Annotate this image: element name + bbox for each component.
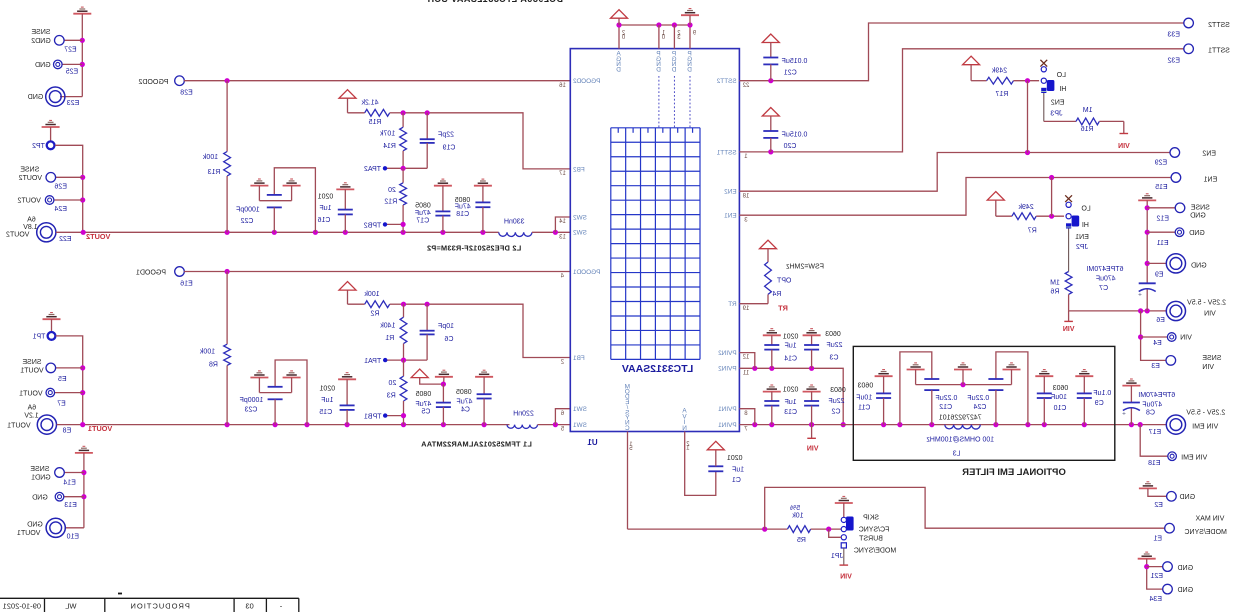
svg-text:E13: E13	[64, 502, 77, 509]
capacitor C13 1uF 0201	[763, 391, 781, 393]
svg-text:0805: 0805	[415, 203, 431, 210]
svg-text:C24: C24	[973, 404, 986, 411]
svg-text:GND: GND	[1191, 263, 1207, 270]
svg-text:1uF: 1uF	[319, 205, 331, 212]
wire VOUT1 rail	[57, 424, 510, 426]
svg-text:C13: C13	[784, 409, 797, 416]
svg-text:EN1: EN1	[1075, 234, 1089, 241]
connector E32 SSTT1	[1184, 44, 1194, 54]
svg-text:VIN MAX: VIN MAX	[1195, 516, 1224, 523]
svg-text:R16: R16	[1081, 126, 1094, 133]
svg-text:SNSE: SNSE	[1202, 355, 1221, 362]
wire	[60, 96, 82, 98]
connector E11 GND	[1145, 230, 1150, 235]
svg-text:SNSE: SNSE	[31, 29, 50, 36]
svg-text:0.22uF: 0.22uF	[936, 395, 958, 402]
svg-text:FSW=2MHz: FSW=2MHz	[786, 263, 824, 270]
svg-text:C19: C19	[442, 145, 455, 152]
svg-text:FC/SYNC: FC/SYNC	[859, 526, 890, 533]
wire SW1 pin6 jog	[555, 409, 570, 425]
svg-text:RT: RT	[728, 301, 736, 308]
connector E33 SSTT2	[1184, 18, 1194, 28]
svg-text:0201: 0201	[318, 193, 334, 200]
svg-text:E14: E14	[63, 479, 76, 486]
svg-text:VIN: VIN	[1204, 311, 1216, 318]
wire FB2	[403, 113, 570, 169]
svg-text:PVIN2: PVIN2	[718, 366, 737, 373]
svg-text:E22: E22	[59, 236, 72, 243]
capacitor C3 22uF 0603	[803, 334, 821, 336]
svg-text:VIN EMI: VIN EMI	[1192, 423, 1218, 430]
ground	[283, 377, 301, 379]
svg-text:0201: 0201	[783, 333, 799, 340]
svg-text:100k: 100k	[199, 349, 215, 356]
svg-text:PVIN1: PVIN1	[718, 406, 737, 413]
svg-text:E4: E4	[1153, 340, 1162, 347]
svg-text:VOUT1: VOUT1	[17, 530, 40, 537]
jumper JP3 EN2	[1040, 60, 1047, 67]
svg-text:BURST: BURST	[858, 536, 882, 543]
wire VOUT2 rail	[56, 231, 499, 233]
capacitor C10 10uF 0603	[1035, 375, 1053, 377]
svg-text:GND1: GND1	[31, 475, 51, 482]
resistor R13 100k	[226, 81, 228, 152]
svg-text:SNSE: SNSE	[20, 166, 39, 173]
svg-text:PGOOD2: PGOOD2	[573, 78, 601, 85]
resistor R7 249k	[996, 215, 1012, 217]
ground	[283, 185, 301, 187]
svg-text:TPB1: TPB1	[364, 414, 382, 421]
svg-text:JP1: JP1	[831, 553, 843, 560]
svg-text:GND: GND	[35, 62, 51, 69]
wire FB1	[404, 304, 571, 357]
test point TPB2	[383, 222, 387, 226]
wire AVIN	[685, 432, 716, 496]
svg-text:41.2k: 41.2k	[361, 100, 379, 107]
svg-text:C6: C6	[444, 336, 453, 343]
svg-text:SW1: SW1	[573, 422, 587, 429]
capacitor C14 1uF 0201	[763, 334, 781, 336]
connector E24 VOUT2	[54, 199, 83, 201]
svg-text:E33: E33	[1167, 32, 1180, 39]
wire SSTT2	[739, 23, 1184, 81]
wire EN2	[739, 153, 1170, 192]
connector E22 VOUT2 1.8V 6A	[37, 223, 56, 242]
svg-text:EN2: EN2	[1051, 100, 1065, 107]
power arrow VIN R15	[339, 90, 356, 99]
svg-text:R13: R13	[207, 169, 220, 176]
svg-text:LO: LO	[1056, 72, 1066, 79]
connector E34 GND	[1163, 584, 1173, 594]
svg-text:C16: C16	[317, 217, 330, 224]
svg-text:C18: C18	[456, 211, 469, 218]
svg-text:330nH: 330nH	[504, 218, 525, 225]
connector E23 GND	[46, 87, 65, 106]
wire TPA2 node	[385, 167, 427, 169]
svg-text:+: +	[1122, 410, 1126, 417]
svg-text:R12: R12	[384, 198, 397, 205]
svg-text:C1: C1	[732, 477, 741, 484]
connector E2 GND	[1139, 487, 1157, 489]
svg-text:EN1: EN1	[724, 213, 737, 220]
svg-text:TP1: TP1	[32, 334, 45, 341]
resistor R8 100k	[226, 272, 228, 345]
svg-text:E16: E16	[180, 280, 193, 287]
svg-text:EN2: EN2	[1202, 150, 1216, 157]
svg-text:C: C	[625, 425, 630, 432]
svg-text:0201: 0201	[783, 386, 799, 393]
capacitor C4 47uF 0805	[475, 376, 493, 378]
svg-text:5%: 5%	[790, 505, 800, 512]
svg-text:E27: E27	[64, 46, 77, 53]
svg-text:D: D	[671, 67, 676, 74]
connector E14 GND1 SNSE	[64, 472, 84, 474]
wire SW1	[538, 424, 571, 426]
svg-text:VOUT2: VOUT2	[19, 175, 42, 182]
svg-text:TPB2: TPB2	[364, 222, 382, 229]
wire VIN node	[1069, 310, 1167, 312]
svg-text:VOUT2: VOUT2	[6, 232, 29, 239]
svg-text:R17: R17	[995, 91, 1008, 98]
svg-text:22: 22	[742, 83, 749, 89]
svg-text:L2 DFE252012F-R33M=P2: L2 DFE252012F-R33M=P2	[427, 244, 521, 253]
svg-text:C8: C8	[1146, 409, 1155, 416]
svg-text:E5: E5	[58, 376, 67, 383]
svg-text:1uF: 1uF	[732, 467, 744, 474]
svg-text:WL: WL	[65, 601, 76, 610]
svg-text:L3: L3	[953, 450, 961, 457]
power tail VIN	[811, 425, 813, 439]
svg-text:140k: 140k	[380, 322, 396, 329]
svg-text:03: 03	[245, 601, 253, 610]
power arrow VIN R2	[339, 282, 356, 291]
svg-text:0.22uF: 0.22uF	[967, 395, 989, 402]
svg-text:N: N	[682, 425, 687, 432]
svg-text:GND: GND	[27, 522, 43, 529]
connector E5 VOUT1 SNSE	[55, 367, 82, 369]
svg-text:C5: C5	[421, 409, 430, 416]
svg-text:E6: E6	[1156, 317, 1165, 324]
svg-text:E34: E34	[1149, 596, 1162, 603]
svg-text:1uF: 1uF	[785, 399, 797, 406]
power tail VIN	[1068, 311, 1070, 322]
svg-text:220nH: 220nH	[513, 411, 534, 418]
svg-text:VIN: VIN	[840, 573, 852, 580]
svg-text:U1: U1	[587, 438, 598, 447]
inductor L1 220nH	[507, 425, 538, 429]
svg-text:SSTT2: SSTT2	[716, 78, 736, 85]
svg-text:0201: 0201	[319, 385, 335, 392]
svg-text:E9: E9	[1155, 272, 1164, 279]
node E13 junction	[81, 494, 86, 499]
svg-text:10uF: 10uF	[856, 395, 872, 402]
title block	[0, 598, 299, 612]
svg-text:SW1: SW1	[573, 406, 587, 413]
svg-text:18: 18	[742, 193, 749, 199]
svg-text:1.2V: 1.2V	[24, 413, 39, 420]
capacitor C8 470uF polarized	[1122, 385, 1140, 387]
svg-text:E28: E28	[180, 90, 193, 97]
svg-text:249k: 249k	[1018, 204, 1034, 211]
wire TPB2 node	[385, 223, 403, 225]
wire RT	[739, 303, 768, 305]
svg-text:FB2: FB2	[573, 166, 585, 173]
svg-text:SNSE: SNSE	[22, 359, 41, 366]
svg-text:6A: 6A	[27, 405, 36, 412]
svg-text:1M: 1M	[1083, 107, 1093, 114]
svg-text:74279226101: 74279226101	[939, 415, 982, 422]
svg-text:20: 20	[388, 187, 396, 194]
wire TPB1 node	[385, 415, 403, 417]
svg-text:C21: C21	[784, 70, 797, 77]
svg-text:D: D	[616, 67, 621, 74]
svg-text:SW2: SW2	[573, 214, 587, 221]
svg-text:1000pF: 1000pF	[236, 206, 260, 213]
svg-text:+: +	[1138, 291, 1142, 298]
svg-text:6TPE470MI: 6TPE470MI	[1086, 266, 1123, 273]
svg-text:13: 13	[559, 234, 566, 240]
ground	[250, 377, 268, 379]
svg-text:11: 11	[742, 370, 749, 376]
svg-text:E21: E21	[1150, 573, 1163, 580]
svg-text:VIN: VIN	[1180, 335, 1192, 342]
svg-text:C10: C10	[1053, 405, 1066, 412]
svg-text:TPA2: TPA2	[364, 166, 381, 173]
svg-text:C14: C14	[784, 356, 797, 363]
svg-text:GND2: GND2	[31, 38, 51, 45]
svg-text:0603: 0603	[1053, 385, 1069, 392]
test point TPA1	[383, 358, 387, 362]
test point TP2	[47, 141, 55, 149]
power tail VIN	[843, 548, 845, 565]
svg-text:OPT: OPT	[776, 277, 791, 284]
capacitor C7 470uF polarized	[1139, 282, 1156, 284]
svg-text:VIN EMI: VIN EMI	[1181, 455, 1207, 462]
svg-text:C22: C22	[240, 218, 253, 225]
capacitor C11 10uF 0603	[875, 375, 893, 377]
wire gnd bus mid	[916, 384, 1012, 386]
svg-text:VOUT2: VOUT2	[17, 198, 40, 205]
svg-text:E1: E1	[1153, 536, 1162, 543]
svg-text:C12: C12	[939, 404, 952, 411]
svg-text:VIN: VIN	[1063, 326, 1075, 333]
resistor R16 1M	[1076, 118, 1099, 125]
svg-text:GND: GND	[1189, 230, 1205, 237]
svg-text:1.8V: 1.8V	[23, 224, 38, 231]
svg-text:DC2936A LTC3312SAAV SCH: DC2936A LTC3312SAAV SCH	[427, 0, 563, 4]
svg-text:PGOOD1: PGOOD1	[136, 269, 166, 276]
svg-text:107k: 107k	[380, 131, 396, 138]
svg-text:R3: R3	[387, 392, 396, 399]
wire JP3 to R16	[1043, 93, 1045, 121]
connector E3 VIN SNSE	[1166, 356, 1176, 366]
ground	[907, 369, 925, 371]
connector E1 MODE/SYNC VIN MAX	[1165, 523, 1175, 533]
capacitor C20 0.015uF	[763, 130, 778, 132]
svg-text:GND: GND	[1180, 494, 1196, 501]
svg-text:SNSE: SNSE	[1190, 205, 1209, 212]
ground	[73, 13, 91, 15]
inductor L3 ferrite	[945, 425, 981, 429]
capacitor C16 1uF 0201	[336, 188, 354, 190]
wire PVIN1	[739, 424, 1166, 426]
svg-text:E3: E3	[1151, 363, 1160, 370]
wire SSTT1	[739, 49, 1184, 152]
svg-text:RT: RT	[778, 304, 788, 313]
ground	[75, 452, 93, 454]
svg-text:GND: GND	[32, 494, 48, 501]
connector E18 VIN EMI	[1140, 425, 1168, 457]
svg-text:2.25V - 5.5V: 2.25V - 5.5V	[1186, 409, 1225, 416]
svg-text:10uF: 10uF	[1051, 394, 1067, 401]
svg-text:16: 16	[559, 83, 566, 89]
wire PGOOD2	[184, 80, 570, 82]
power arrow VIN C20	[762, 108, 779, 117]
svg-text:C23: C23	[244, 407, 257, 414]
connector E6 VIN 2.25V-5.5V	[1166, 301, 1185, 320]
svg-text:E18: E18	[1148, 460, 1161, 467]
node E14 junction	[81, 470, 86, 475]
svg-text:47uF: 47uF	[415, 210, 431, 217]
power arrow VIN C21	[762, 34, 779, 43]
svg-text:E7: E7	[57, 400, 66, 407]
connector E10 VOUT1 GND	[65, 527, 84, 529]
svg-text:HI: HI	[1082, 222, 1089, 229]
connector E27 GND2 SNSE	[64, 39, 82, 41]
svg-text:C11: C11	[858, 405, 870, 412]
svg-text:0.015uF: 0.015uF	[782, 131, 808, 138]
wire SW2	[532, 231, 570, 233]
svg-text:12: 12	[742, 355, 749, 361]
svg-text:HI: HI	[1059, 86, 1066, 93]
power arrow output C5	[411, 369, 428, 378]
wire AGND PGND bus	[619, 25, 690, 49]
svg-text:E11: E11	[1157, 240, 1169, 247]
svg-text:10pF: 10pF	[438, 323, 454, 330]
svg-text:SSTT1: SSTT1	[716, 149, 736, 156]
svg-text:C7: C7	[1099, 285, 1108, 292]
svg-text:PGOOD2: PGOOD2	[138, 79, 168, 86]
svg-text:EN1: EN1	[1203, 176, 1217, 183]
svg-text:R4: R4	[772, 291, 781, 298]
svg-text:JP3: JP3	[1050, 111, 1062, 118]
svg-text:GND: GND	[28, 94, 44, 101]
svg-text:47uF: 47uF	[455, 204, 471, 211]
svg-text:R14: R14	[383, 143, 396, 150]
svg-text:VOUT1: VOUT1	[7, 422, 30, 429]
svg-text:E23: E23	[67, 100, 80, 107]
resistor R14 107k	[402, 113, 404, 127]
resistor R2 100k	[348, 303, 365, 305]
svg-text:SNSE: SNSE	[30, 466, 49, 473]
svg-text:FB1: FB1	[573, 355, 585, 362]
power arrow VIN R4	[760, 240, 777, 249]
svg-text:SSTT2: SSTT2	[1208, 22, 1230, 29]
wire	[56, 336, 83, 425]
svg-text:0603: 0603	[830, 387, 846, 394]
svg-text:SW2: SW2	[573, 230, 587, 237]
wire	[55, 145, 83, 232]
svg-text:22uF: 22uF	[827, 342, 843, 349]
svg-text:C20: C20	[783, 143, 796, 150]
svg-text:SSTT1: SSTT1	[1208, 48, 1230, 55]
power tail VIN	[1123, 121, 1125, 133]
svg-text:VOUT2: VOUT2	[86, 232, 110, 241]
inductor L2 330nH	[499, 232, 532, 236]
svg-text:470uF: 470uF	[1142, 401, 1162, 408]
ground	[1138, 199, 1156, 201]
svg-text:E10: E10	[66, 533, 79, 540]
power arrow AGND	[611, 10, 628, 19]
svg-text:LO: LO	[1081, 206, 1091, 213]
svg-text:L1 TFM252012ALMAR22MTAA: L1 TFM252012ALMAR22MTAA	[421, 439, 532, 448]
svg-text:47uF: 47uF	[457, 399, 473, 406]
ground	[954, 369, 972, 371]
connector E9 GND	[1145, 261, 1150, 266]
jumper JP1 MODE/SYNC	[835, 502, 853, 504]
svg-text:E26: E26	[54, 184, 67, 191]
svg-text:19: 19	[742, 306, 749, 312]
svg-text:0.015uF: 0.015uF	[782, 58, 808, 65]
connector E28 PGOOD2	[175, 76, 185, 86]
svg-text:MODE/SYNC: MODE/SYNC	[854, 547, 896, 554]
capacitor C5 47uF 0805	[435, 376, 453, 378]
svg-text:VIN: VIN	[1202, 364, 1214, 371]
svg-text:47uF: 47uF	[415, 401, 431, 408]
svg-text:TP2: TP2	[32, 143, 45, 150]
svg-text:VOUT1: VOUT1	[19, 390, 42, 397]
power arrow VIN R17	[963, 56, 980, 64]
svg-text:0805: 0805	[416, 391, 432, 398]
connector E4 VIN	[1141, 336, 1168, 338]
capacitor C22 1000pF	[274, 168, 315, 233]
connector E7 VOUT1	[55, 392, 83, 394]
svg-text:R2: R2	[370, 311, 379, 318]
svg-text:VOUT1: VOUT1	[88, 424, 112, 433]
node E27 junction	[80, 38, 85, 43]
capacitor C19 22pF	[426, 113, 428, 139]
node E25 junction	[80, 62, 85, 67]
resistor R3 20	[403, 360, 405, 376]
jumper JP2 EN1	[1065, 195, 1072, 202]
connector E25 GND	[62, 63, 82, 65]
svg-text:14: 14	[559, 219, 566, 225]
connector E16 PGOOD1	[175, 267, 185, 277]
svg-text:100 OHMS@100MHz: 100 OHMS@100MHz	[926, 437, 994, 444]
svg-text:D: D	[656, 67, 661, 74]
optional EMI filter box	[853, 346, 1115, 460]
power arrow VIN R7	[987, 192, 1004, 201]
test point TPB1	[383, 413, 387, 417]
svg-text:R15: R15	[368, 119, 381, 126]
wire MODE/SYNC pin15	[627, 432, 629, 530]
capacitor C12 0.22uF	[900, 352, 932, 425]
capacitor C21 0.015uF	[763, 57, 778, 59]
test point TPA2	[383, 166, 387, 170]
test point TP1	[48, 332, 56, 340]
svg-text:0805: 0805	[456, 389, 472, 396]
capacitor C6 10pF	[426, 304, 428, 331]
svg-text:10k: 10k	[792, 512, 804, 519]
wire EN2 branch	[1027, 81, 1029, 153]
svg-text:0603: 0603	[825, 331, 841, 338]
connector E12 GND SNSE	[1145, 205, 1150, 210]
svg-text:E24: E24	[54, 206, 67, 213]
resistor R6 1M	[1068, 229, 1070, 272]
svg-text:VIN: VIN	[807, 445, 819, 452]
svg-text:0603: 0603	[858, 383, 874, 390]
svg-text:1uF: 1uF	[321, 397, 333, 404]
